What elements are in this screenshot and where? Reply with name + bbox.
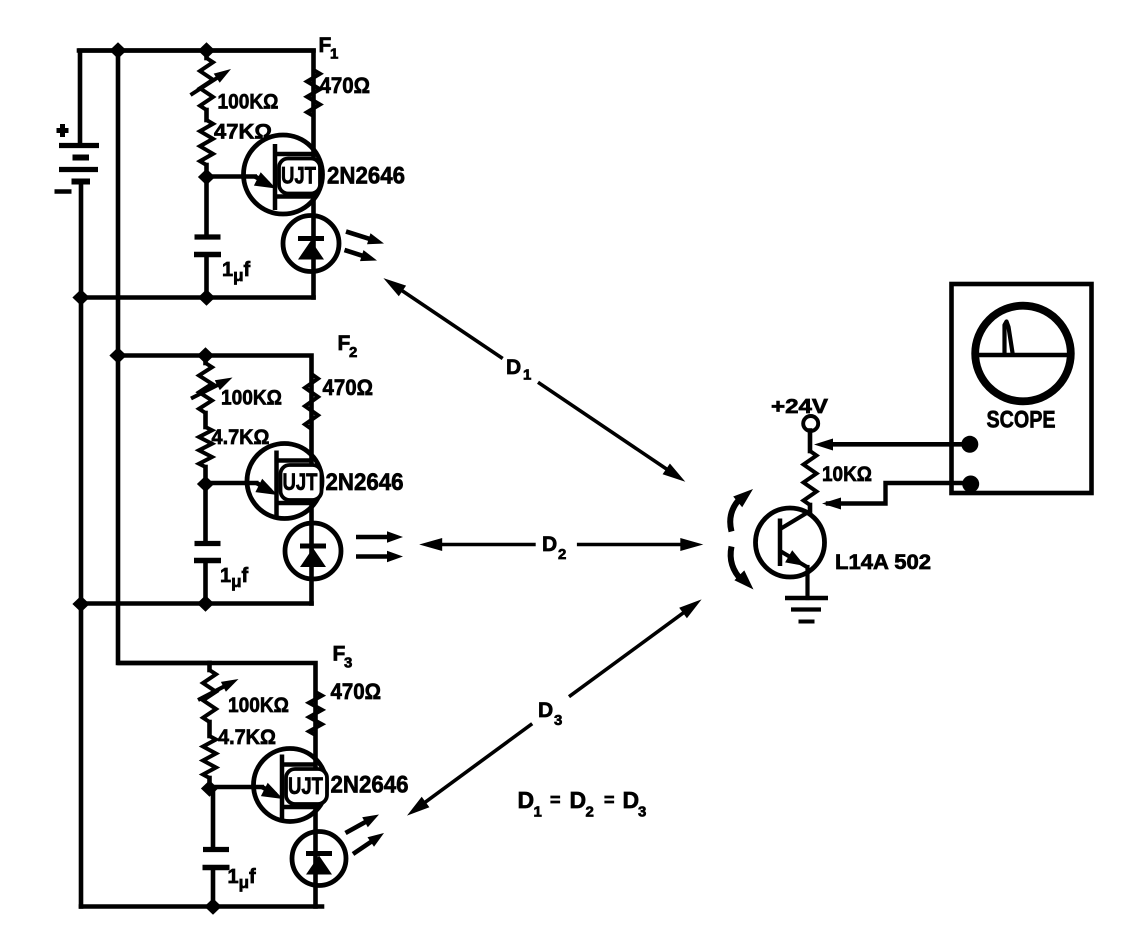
svg-text:2N2646: 2N2646: [326, 469, 404, 496]
resistor 47K ohm (F1): [200, 120, 213, 165]
svg-text:100KΩ: 100KΩ: [228, 694, 289, 717]
terminal scope lower connector dot: [962, 476, 979, 493]
light emission arrows (F2): [356, 535, 393, 540]
resistor 47K ohm (F2): [199, 427, 212, 467]
capacitor 1uf (F2): [195, 541, 221, 546]
svg-text:470Ω: 470Ω: [323, 375, 374, 400]
wire battery negative rail down left side: [79, 182, 84, 907]
light acceptance arc lower: [731, 547, 742, 581]
wire emitter node down to capacitor (F3): [211, 789, 216, 850]
svg-text:3: 3: [554, 712, 562, 729]
wire capacitor to bottom rail (F3): [211, 868, 216, 907]
LED photo-emitting diode (F3): [292, 832, 346, 886]
svg-text:1: 1: [534, 804, 542, 821]
node capacitor bottom rail junction (F2): [197, 595, 214, 611]
svg-text:4.7KΩ: 4.7KΩ: [218, 726, 276, 749]
svg-text:D: D: [506, 356, 521, 379]
ground: [785, 598, 828, 622]
wire emitter node down to capacitor (F1): [204, 177, 209, 237]
wire F2 bottom rail: [81, 601, 312, 606]
resistor 100K ohm potentiometer (F1): [200, 58, 213, 110]
svg-text:D: D: [538, 699, 553, 722]
wire F1 right branch (top rail corner down to bottom rail): [79, 51, 314, 298]
svg-text:SCOPE: SCOPE: [987, 407, 1056, 434]
wire F2 47K to emitter node: [203, 467, 208, 484]
svg-text:10KΩ: 10KΩ: [822, 463, 872, 486]
terminal +24V supply circle: [803, 416, 818, 431]
wire emitter to ground: [805, 567, 809, 598]
UJT label box (F1): [279, 159, 320, 194]
svg-text:D: D: [570, 787, 587, 813]
resistor 470 ohm (F2): [305, 374, 318, 429]
UJT label box (F2): [281, 465, 322, 500]
svg-text:3: 3: [344, 655, 352, 672]
wire F1 left column top (rail to 100K): [204, 51, 209, 59]
wire F1 bottom rail: [81, 295, 314, 300]
svg-text:470Ω: 470Ω: [320, 73, 371, 98]
svg-text:470Ω: 470Ω: [331, 679, 382, 704]
LED photo-emitting diode (F1): [283, 216, 339, 272]
wire F2 left column top (rail to 100K): [203, 356, 208, 364]
svg-text:UJT: UJT: [283, 469, 318, 496]
transistor UJT 2N2646 (F2): [206, 444, 323, 519]
svg-text:D: D: [623, 787, 640, 813]
wire + feed rail down to F2 and F3: [118, 51, 210, 664]
resistor 470 ohm (F1): [307, 70, 320, 116]
svg-text:2: 2: [349, 344, 357, 361]
LED photo-emitting diode (F2): [285, 523, 341, 579]
wire +24V to 10K resistor: [808, 431, 813, 452]
wire capacitor to bottom rail (F1): [204, 255, 209, 298]
resistor 10K ohm: [804, 451, 817, 505]
svg-text:1μf: 1μf: [222, 259, 251, 285]
oscilloscope CRT screen circle: [975, 306, 1071, 402]
light beam D3 double arrow: [418, 724, 532, 808]
svg-text:=: =: [604, 790, 615, 810]
svg-text:D: D: [542, 533, 557, 556]
wire F1 47K to emitter node: [204, 165, 209, 177]
oscilloscope box: [952, 284, 1092, 493]
svg-text:UJT: UJT: [281, 163, 316, 190]
potentiometer arrow (F3): [198, 684, 229, 700]
UJT label box (F3): [286, 769, 327, 804]
node emitter junction (F3): [201, 780, 218, 796]
wire F3 left column top (rail to 100K): [207, 663, 212, 670]
wire emitter node down to capacitor (F2): [203, 484, 208, 544]
resistor 470 ohm (F3): [309, 692, 322, 735]
terminal scope upper connector dot: [961, 436, 978, 453]
transistor UJT 2N2646 (F1): [207, 135, 323, 214]
wire top rail cell F1: [118, 48, 314, 53]
potentiometer arrow (F1): [191, 75, 223, 96]
svg-text:3: 3: [638, 804, 646, 821]
node emitter junction (F2): [197, 476, 214, 492]
wire F2 right branch (top rail corner down to bottom rail): [118, 356, 312, 604]
transistor UJT 2N2646 (F3): [210, 749, 327, 822]
svg-text:1μf: 1μf: [228, 866, 257, 892]
node capacitor bottom rail junction (F1): [198, 289, 215, 305]
svg-text:2: 2: [558, 546, 566, 563]
wire battery positive lead: [80, 51, 118, 146]
light emission arrows (F3): [346, 819, 371, 833]
node junction battery - / F2 bottom rail: [72, 596, 89, 612]
svg-text:2: 2: [586, 804, 594, 821]
resistor 47K ohm (F3): [203, 736, 216, 778]
wire 10K to phototransistor collector: [808, 505, 813, 513]
svg-text:1: 1: [330, 46, 338, 63]
battery BT1: [55, 124, 100, 192]
svg-text:UJT: UJT: [288, 773, 323, 800]
capacitor 1uf (F3): [203, 847, 229, 852]
svg-text:100KΩ: 100KΩ: [218, 91, 279, 114]
node junction battery - / F1 bottom rail: [72, 289, 89, 305]
svg-text:2N2646: 2N2646: [327, 163, 405, 190]
capacitor 1uf (F1): [195, 234, 221, 239]
node capacitor bottom rail junction (F3): [204, 898, 221, 914]
light emission arrows (F1): [346, 232, 375, 241]
wire F3 47K to emitter node: [207, 778, 212, 789]
svg-text:2N2646: 2N2646: [331, 772, 409, 799]
node junction battery + / top rail: [109, 42, 126, 58]
wire scope lower terminal to collector node: [828, 483, 968, 504]
svg-text:=: =: [550, 790, 561, 810]
light beam D1 double arrow: [395, 286, 503, 359]
svg-text:D: D: [518, 787, 535, 813]
light beam D2 double arrow: [433, 543, 536, 547]
node emitter junction (F1): [198, 169, 215, 185]
node junction (F2): [197, 347, 214, 363]
wire F1 between 100K and 47K: [204, 110, 209, 120]
wire scope upper terminal to 10K top (collector supply): [830, 442, 969, 447]
svg-text:1: 1: [523, 367, 531, 384]
node junction 100K F1 top: [198, 42, 215, 58]
wire F3 bottom rail: [81, 904, 322, 909]
resistor 100K ohm potentiometer (F2): [199, 363, 212, 413]
wire F3 between 100K and 47K: [207, 722, 212, 736]
svg-text:47KΩ: 47KΩ: [214, 121, 272, 144]
svg-text:L14A 502: L14A 502: [835, 551, 931, 574]
svg-text:1μf: 1μf: [220, 565, 249, 591]
node junction (F2): [109, 347, 126, 363]
svg-text:100KΩ: 100KΩ: [221, 387, 282, 410]
svg-text:+24V: +24V: [771, 396, 829, 418]
transistor phototransistor L14A 502: [756, 508, 825, 577]
oscilloscope trace with pulse: [976, 353, 1070, 357]
wire F2 between 100K and 47K: [203, 413, 208, 427]
resistor 100K ohm potentiometer (F3): [203, 670, 216, 722]
potentiometer arrow (F2): [191, 382, 223, 398]
wire F3 right branch (top rail corner down to bottom rail): [120, 663, 316, 907]
light acceptance arc upper: [730, 498, 741, 532]
wire capacitor to bottom rail (F2): [203, 561, 208, 604]
svg-text:4.7KΩ: 4.7KΩ: [212, 426, 270, 449]
